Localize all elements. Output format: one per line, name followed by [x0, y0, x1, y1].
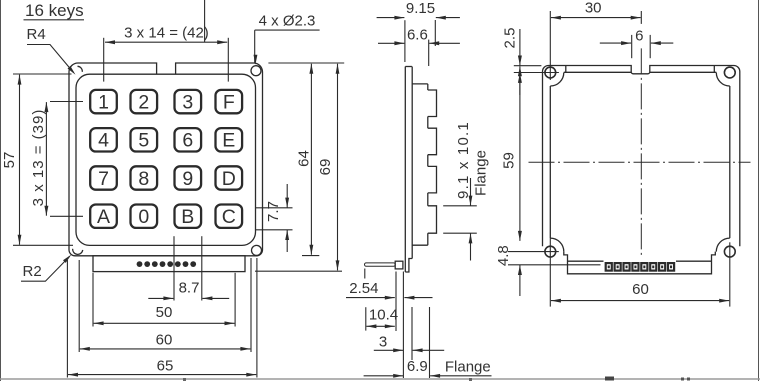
svg-text:57: 57 [1, 152, 18, 169]
front mounting hole top-left (partial arc) [78, 66, 83, 72]
svg-text:R2: R2 [23, 263, 42, 280]
bottom flange steps left [564, 252, 716, 274]
svg-text:59: 59 [501, 152, 518, 169]
svg-text:7: 7 [98, 168, 109, 190]
screw boss arc top-right [716, 73, 730, 87]
connector strip (front) [93, 256, 245, 272]
key 2 [131, 90, 158, 113]
back hole top-left with crosshair [545, 67, 556, 78]
page left border [0, 0, 2, 381]
svg-text:4: 4 [98, 130, 109, 152]
page bottom grey rule [0, 378, 760, 380]
back inner panel top edge [564, 71, 631, 73]
svg-text:A: A [97, 206, 110, 228]
svg-text:2.54: 2.54 [349, 280, 378, 297]
svg-text:4 x Ø2.3: 4 x Ø2.3 [259, 12, 316, 29]
SIDE VIEW: back plate [405, 66, 412, 68]
front mounting hole top-right [251, 66, 261, 76]
svg-text:9.1 x 10.1: 9.1 x 10.1 [455, 121, 472, 199]
key 8 [131, 166, 158, 189]
svg-text:6: 6 [182, 130, 193, 152]
key 7 [90, 166, 117, 189]
svg-text:E: E [222, 130, 235, 152]
svg-text:60: 60 [156, 332, 173, 349]
stray crop line top [204, 0, 206, 42]
flange top edge segments [568, 260, 604, 262]
key 0 [131, 205, 158, 228]
BACK VIEW: outer case outline with top notch [549, 66, 740, 247]
extension line to connector (4.8 lower ref) [508, 264, 601, 266]
svg-text:3: 3 [379, 334, 387, 351]
key A [90, 205, 117, 228]
svg-text:D: D [222, 168, 236, 190]
back hole top-right [724, 67, 735, 78]
screw boss arc bottom-left [550, 238, 564, 252]
keypad face (rounded bezel) [76, 74, 256, 245]
key D [216, 166, 243, 189]
extension of strip bottom edge to right [255, 270, 342, 272]
centerline vertical (dash-dot) [640, 48, 642, 257]
back hole bottom-left with crosshair [545, 246, 556, 257]
corner step ticks top [565, 66, 567, 73]
key F [216, 90, 243, 113]
centerline horizontal (dash-dot) [529, 161, 751, 163]
svg-text:Flange: Flange [473, 150, 490, 196]
back inner panel left edge [549, 86, 551, 238]
svg-text:64: 64 [296, 150, 313, 167]
screw boss arc bottom-right [716, 238, 730, 252]
svg-text:5: 5 [138, 130, 149, 152]
svg-text:8.7: 8.7 [179, 280, 200, 297]
key 1 [90, 90, 117, 113]
svg-text:B: B [181, 206, 194, 228]
front mounting hole bottom-left (partial arc) [73, 249, 83, 255]
key bump row 3 (side profile) [428, 166, 437, 193]
svg-text:Flange: Flange [445, 359, 491, 376]
svg-text:10.4: 10.4 [369, 307, 398, 324]
svg-text:1: 1 [98, 91, 109, 113]
svg-text:0: 0 [138, 206, 149, 228]
svg-text:3 x 13 = (39): 3 x 13 = (39) [30, 109, 47, 207]
connector pins: 8 solder dots [137, 261, 143, 267]
svg-text:9.15: 9.15 [406, 0, 435, 17]
svg-text:6.6: 6.6 [407, 27, 428, 44]
key E [216, 128, 243, 151]
FRONT VIEW: 16-key keypad, body outline with top notch [69, 63, 263, 256]
svg-text:F: F [223, 91, 235, 113]
key bump row 4 (side profile) [428, 206, 437, 233]
svg-text:16 keys: 16 keys [25, 1, 84, 20]
back inner panel right edge [729, 86, 731, 238]
extension of body top edge to right [268, 62, 344, 64]
back hole bottom-right [724, 246, 735, 257]
svg-text:6: 6 [635, 27, 643, 44]
key 3 [175, 90, 202, 113]
svg-text:65: 65 [157, 358, 174, 375]
svg-text:C: C [222, 206, 236, 228]
key 4 [90, 128, 117, 151]
connector housing (side) [395, 261, 403, 269]
svg-text:4.8: 4.8 [495, 245, 512, 266]
extension lines below side view [395, 272, 397, 332]
svg-text:69: 69 [317, 159, 334, 176]
cropped text remnant bottom [605, 377, 614, 381]
screw boss arc top-left [550, 73, 564, 87]
svg-text:3: 3 [182, 91, 193, 113]
svg-text:2: 2 [138, 91, 149, 113]
front mounting hole bottom-right [252, 245, 262, 255]
key B [175, 205, 202, 228]
svg-text:3 x 14 = (42): 3 x 14 = (42) [124, 24, 209, 41]
svg-text:60: 60 [632, 281, 649, 298]
svg-text:7.7: 7.7 [265, 201, 282, 222]
svg-text:R4: R4 [27, 26, 46, 43]
side view bezel [412, 83, 428, 85]
key bump row 1 (side profile) [428, 90, 437, 117]
key C [216, 205, 243, 228]
svg-text:30: 30 [585, 0, 602, 16]
svg-text:2.5: 2.5 [502, 28, 519, 49]
key bump row 2 (side profile) [428, 128, 437, 155]
svg-text:9: 9 [182, 168, 193, 190]
connector pin (side) [365, 263, 396, 266]
extension of body bottom edge to right [302, 255, 319, 257]
page right border [758, 0, 760, 381]
key 9 [175, 166, 202, 189]
key 6 [175, 128, 202, 151]
svg-text:6.9: 6.9 [407, 358, 428, 375]
plate bottom heel step [405, 259, 412, 273]
svg-text:8: 8 [138, 168, 149, 190]
svg-text:50: 50 [156, 304, 173, 321]
back connector: 8 pin header [605, 262, 613, 272]
key 5 [131, 128, 158, 151]
